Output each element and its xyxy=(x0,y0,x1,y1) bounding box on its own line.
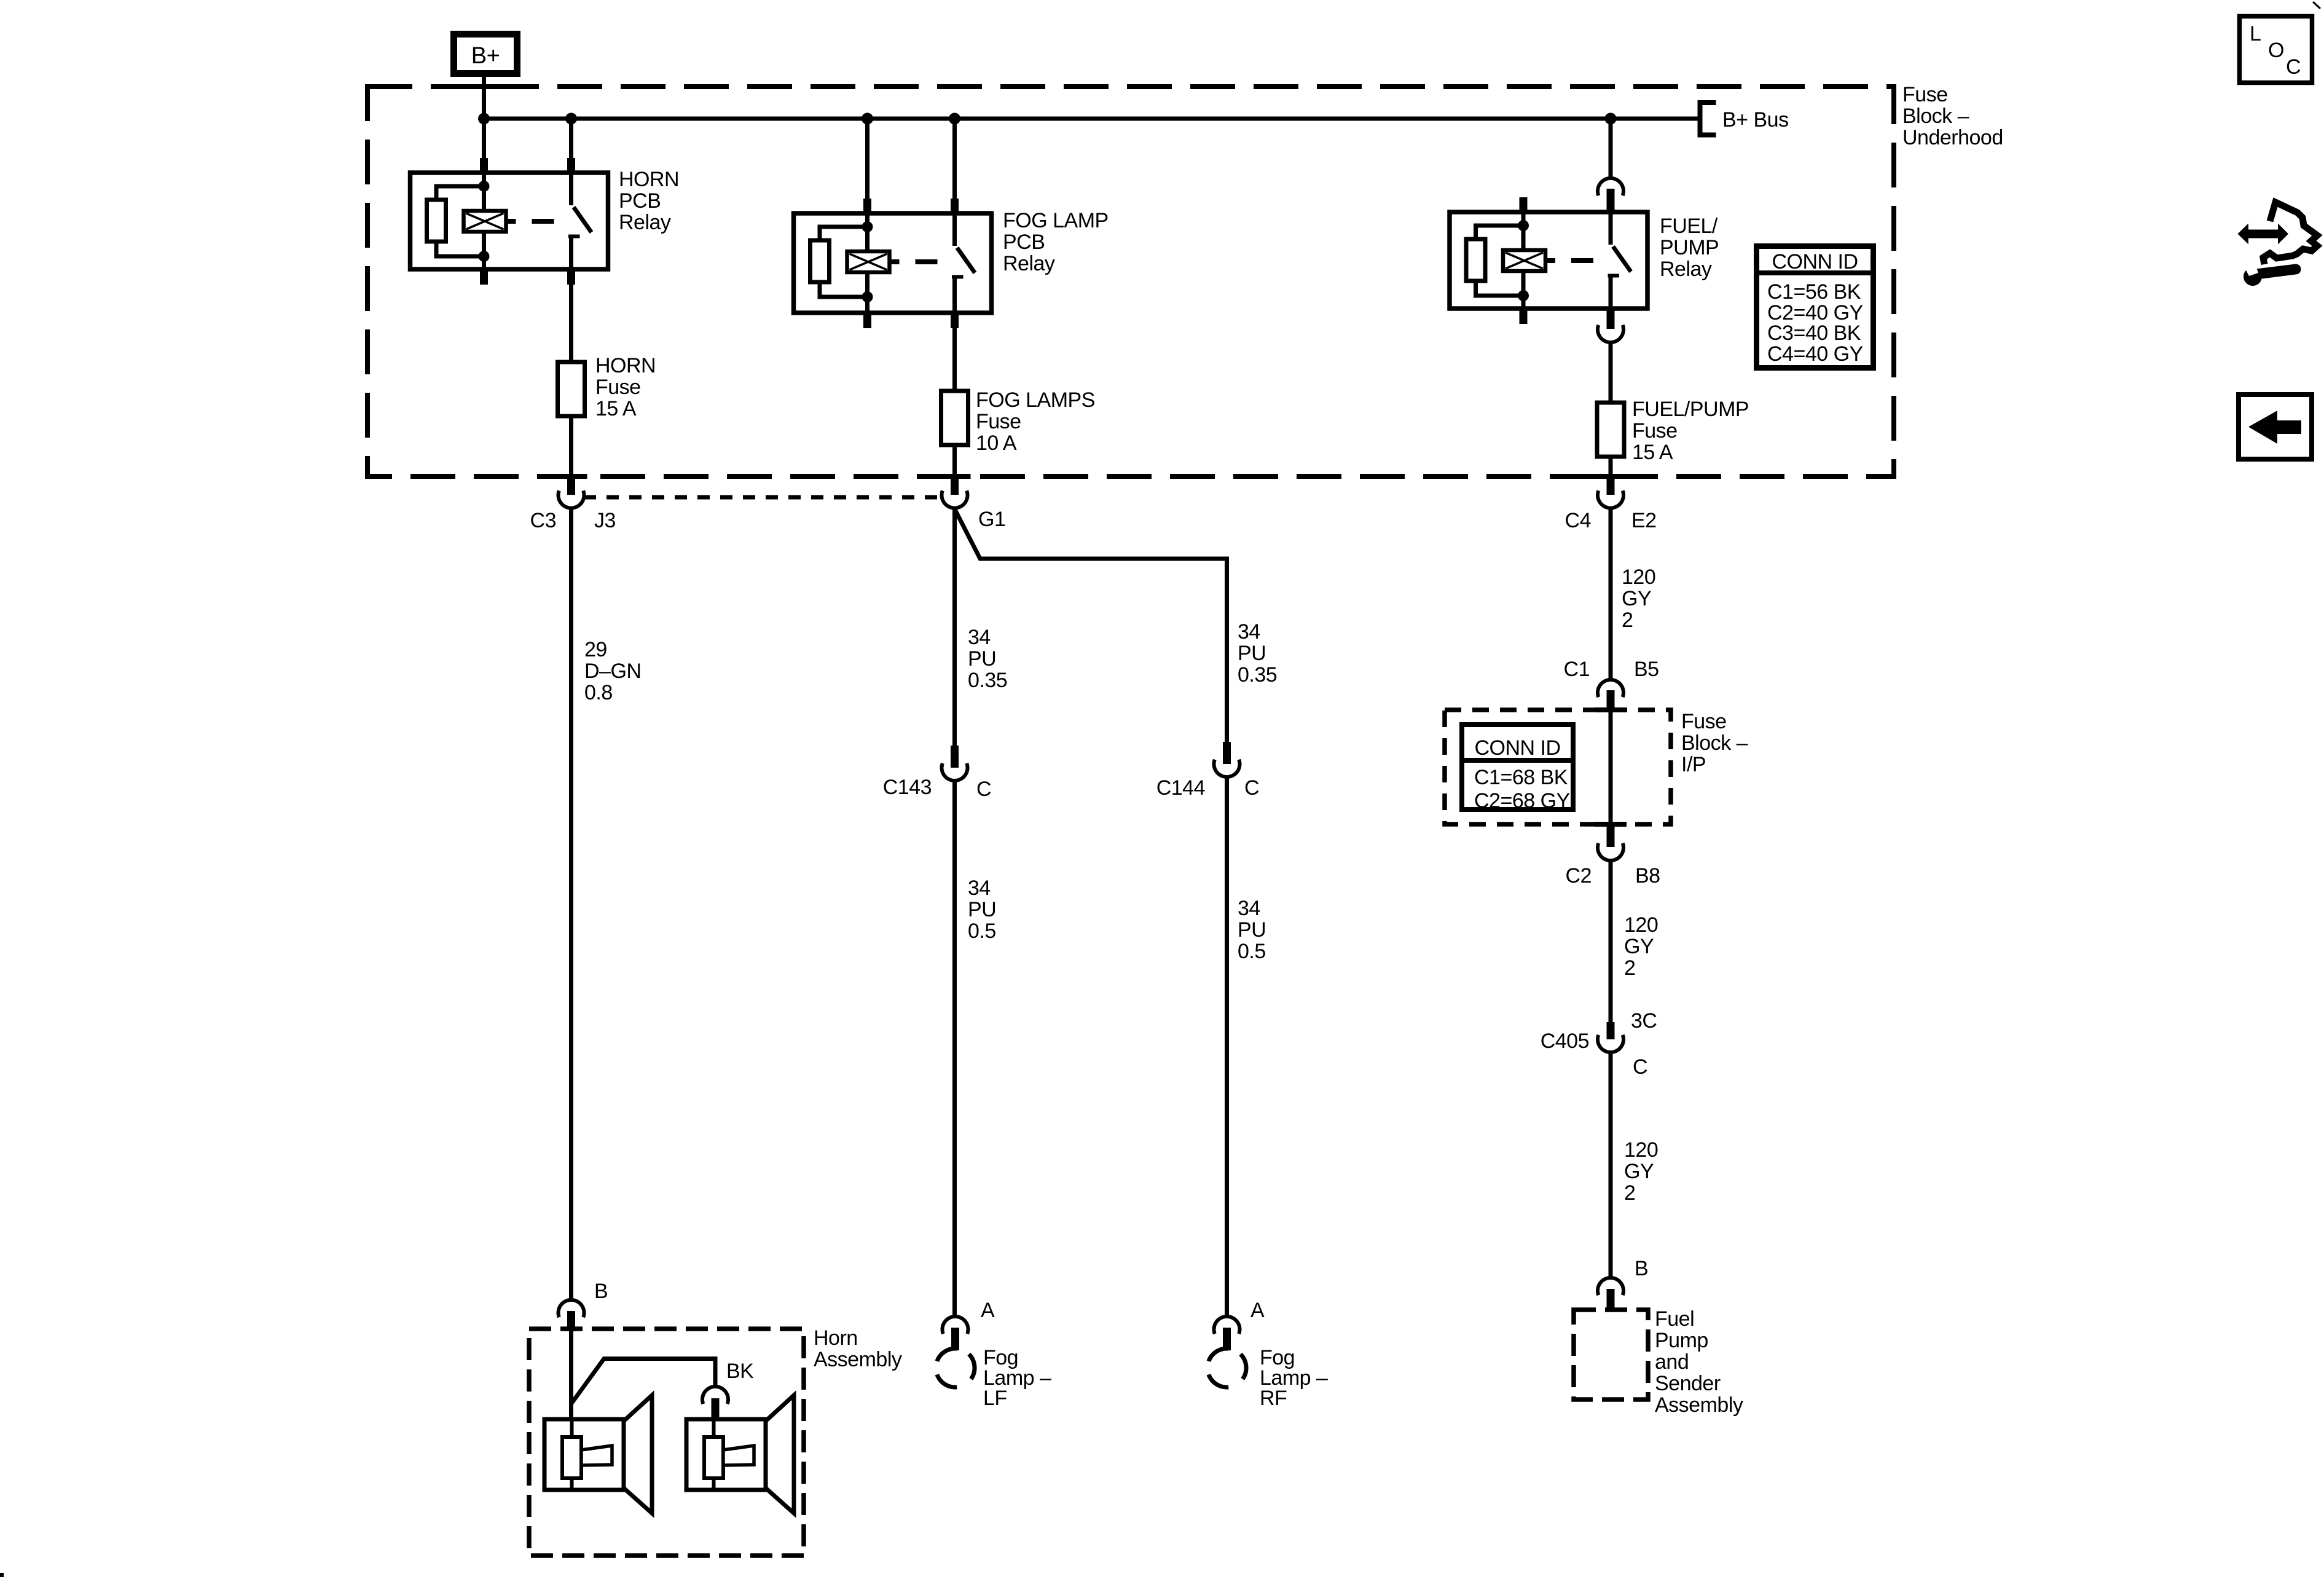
svg-text:C: C xyxy=(976,778,991,801)
wire bus to fog relay switch xyxy=(952,119,957,200)
svg-text:120: 120 xyxy=(1624,1138,1658,1162)
label HORN Fuse 15 A xyxy=(595,354,656,420)
svg-text:FOG LAMP: FOG LAMP xyxy=(1003,209,1109,232)
svg-text:PU: PU xyxy=(968,898,996,921)
page artifact marks xyxy=(0,1573,4,1577)
svg-text:Fuse: Fuse xyxy=(1902,83,1948,106)
wire fog fuse to connector G1 xyxy=(952,445,957,476)
svg-text:A: A xyxy=(981,1299,995,1322)
svg-text:Fuel: Fuel xyxy=(1655,1307,1694,1331)
net B+ Bus terminal xyxy=(1700,103,1789,135)
wire label 34 PU 0.5 LF xyxy=(968,876,996,943)
svg-text:E2: E2 xyxy=(1631,509,1657,532)
svg-text:PU: PU xyxy=(1238,642,1266,665)
wire branch to BK xyxy=(571,1359,716,1404)
wire horn relay to horn fuse xyxy=(569,283,573,363)
fuse FOG LAMPS Fuse 10 A xyxy=(941,391,968,445)
svg-text:34: 34 xyxy=(1238,897,1260,920)
svg-text:Assembly: Assembly xyxy=(1655,1393,1743,1417)
svg-text:Underhood: Underhood xyxy=(1902,126,2003,149)
wire fog relay to fog fuse xyxy=(952,326,957,392)
label Fuse Block - Underhood xyxy=(1902,83,2003,149)
connector B horn xyxy=(558,1300,584,1331)
Fuse Block - I/P boundary box xyxy=(1445,710,1671,824)
Fuse Block - Underhood boundary box xyxy=(367,87,1894,476)
svg-text:GY: GY xyxy=(1624,935,1654,958)
connector boundary J3 to G1 (dotted) xyxy=(584,495,942,500)
power symbol B+ xyxy=(454,34,517,74)
svg-text:Fuse: Fuse xyxy=(1681,710,1727,733)
connector C144 xyxy=(1214,742,1240,777)
connector fuel relay feed xyxy=(1598,178,1623,212)
svg-text:Relay: Relay xyxy=(619,211,671,234)
label Fuel Pump and Sender Assembly xyxy=(1655,1307,1743,1417)
connector BK xyxy=(702,1387,728,1419)
back arrow navigation symbol xyxy=(2239,395,2312,459)
svg-text:C1=56 BK: C1=56 BK xyxy=(1767,280,1861,304)
wire G1 to C143 (34 PU 0.35) xyxy=(952,508,957,747)
lamp Fog Lamp - RF xyxy=(1209,1349,1246,1387)
fuse FUEL/PUMP Fuse 15 A xyxy=(1597,403,1624,457)
svg-text:FUEL/: FUEL/ xyxy=(1660,215,1718,238)
svg-text:Assembly: Assembly xyxy=(814,1348,902,1371)
boundary dash bars at wire crossings xyxy=(468,84,500,89)
connector C405 xyxy=(1598,1022,1623,1052)
label Horn Assembly xyxy=(814,1326,902,1371)
node junction fuel feed xyxy=(1605,113,1617,125)
svg-text:C2: C2 xyxy=(1566,864,1592,888)
svg-text:15 A: 15 A xyxy=(595,397,637,420)
wire branch G1 to fog lamp RF xyxy=(956,511,1227,743)
svg-text:B+: B+ xyxy=(471,43,500,69)
connector A fog lamp LF xyxy=(943,1317,968,1350)
svg-text:BK: BK xyxy=(726,1360,754,1383)
wire label 34 PU 0.35 RF xyxy=(1238,620,1277,687)
svg-text:0.8: 0.8 xyxy=(584,681,613,704)
svg-text:C143: C143 xyxy=(883,776,932,799)
svg-text:10 A: 10 A xyxy=(976,431,1017,455)
label FUEL/PUMP Relay xyxy=(1660,215,1719,281)
node junction B+/horn coil xyxy=(478,113,490,125)
horn 1 xyxy=(544,1395,652,1513)
svg-text:Sender: Sender xyxy=(1655,1372,1721,1395)
svg-text:PU: PU xyxy=(1238,918,1266,942)
svg-text:I/P: I/P xyxy=(1681,753,1706,776)
svg-text:B8: B8 xyxy=(1635,864,1660,888)
connector fuel relay output xyxy=(1598,308,1623,342)
wire bus to horn relay coil xyxy=(482,119,486,159)
svg-text:C144: C144 xyxy=(1156,776,1205,800)
svg-text:PCB: PCB xyxy=(1003,230,1045,254)
fuse HORN Fuse 15 A xyxy=(558,362,585,416)
svg-text:C405: C405 xyxy=(1541,1030,1589,1053)
svg-text:PUMP: PUMP xyxy=(1660,236,1719,259)
connector C1 / B5 xyxy=(1598,680,1623,712)
wire B+ to bus xyxy=(482,77,486,119)
relay FUEL/PUMP Relay xyxy=(1450,197,1647,324)
svg-text:C3: C3 xyxy=(530,509,556,532)
svg-text:Block –: Block – xyxy=(1902,104,1969,128)
svg-text:and: and xyxy=(1655,1350,1689,1374)
svg-text:Block –: Block – xyxy=(1681,731,1748,755)
label Fog Lamp - RF xyxy=(1260,1346,1328,1410)
node junction fog switch xyxy=(949,113,960,125)
svg-text:L: L xyxy=(2250,22,2261,45)
wire C3 to horn assembly (29 D-GN 0.8) xyxy=(569,508,573,1299)
wire bus to fog relay coil xyxy=(865,119,870,200)
connector A fog lamp RF xyxy=(1214,1317,1240,1350)
svg-text:G1: G1 xyxy=(978,508,1005,531)
service info icon (hood with arrow and wrench) xyxy=(2238,202,2318,286)
node junction horn switch xyxy=(565,113,577,125)
svg-text:A: A xyxy=(1250,1299,1265,1322)
connector B fuel pump xyxy=(1598,1278,1623,1310)
Fuel Pump and Sender Assembly box xyxy=(1574,1310,1648,1400)
svg-text:C: C xyxy=(1633,1055,1647,1079)
svg-text:0.5: 0.5 xyxy=(1238,940,1266,963)
svg-text:0.5: 0.5 xyxy=(968,919,996,943)
wire label 34 PU 0.35 LF xyxy=(968,626,1007,692)
svg-text:C3=40 BK: C3=40 BK xyxy=(1767,321,1861,345)
svg-text:C1: C1 xyxy=(1564,658,1590,681)
label Fog Lamp - LF xyxy=(983,1346,1051,1410)
svg-text:C: C xyxy=(1244,776,1259,800)
label FOG LAMP PCB Relay xyxy=(1003,209,1109,275)
wire label 29 D-GN 0.8 xyxy=(584,638,641,704)
svg-text:C2=68 GY: C2=68 GY xyxy=(1474,789,1570,813)
svg-text:29: 29 xyxy=(584,638,607,661)
svg-text:2: 2 xyxy=(1624,956,1635,980)
relay HORN PCB Relay xyxy=(410,158,608,285)
wire through fuse block I/P xyxy=(1609,712,1613,825)
wire C2 to C405 (120 GY 2) xyxy=(1609,860,1613,1023)
wire label 120 GY 2 (a) xyxy=(1622,565,1655,632)
label FOG LAMPS Fuse 10 A xyxy=(976,388,1095,455)
connector G1 xyxy=(942,474,968,508)
svg-text:B5: B5 xyxy=(1634,658,1659,681)
svg-text:Relay: Relay xyxy=(1003,252,1055,275)
lamp Fog Lamp - LF xyxy=(937,1349,975,1387)
LOC page locator symbol xyxy=(2240,17,2312,83)
svg-text:CONN ID: CONN ID xyxy=(1772,250,1858,274)
svg-text:FOG LAMPS: FOG LAMPS xyxy=(976,388,1095,412)
svg-text:B+ Bus: B+ Bus xyxy=(1722,108,1789,132)
svg-text:HORN: HORN xyxy=(619,168,679,191)
connector C3 / J3 xyxy=(559,474,584,508)
svg-text:HORN: HORN xyxy=(595,354,656,377)
svg-text:Relay: Relay xyxy=(1660,258,1712,281)
horn 2 xyxy=(686,1395,794,1513)
wire horn fuse to connector C3 xyxy=(569,416,573,476)
svg-text:34: 34 xyxy=(968,876,991,900)
svg-text:O: O xyxy=(2268,39,2284,62)
wire C143 to fog lamp LF (34 PU 0.5) xyxy=(952,781,957,1315)
svg-text:FUEL/PUMP: FUEL/PUMP xyxy=(1632,398,1749,421)
svg-text:B: B xyxy=(1635,1257,1648,1280)
svg-text:34: 34 xyxy=(968,626,991,649)
relay FOG LAMP PCB Relay xyxy=(794,199,992,328)
svg-text:C1=68 BK: C1=68 BK xyxy=(1474,766,1568,789)
wire bus to fuel relay connector xyxy=(1609,119,1613,177)
CONN ID table underhood xyxy=(1756,246,1874,368)
svg-text:C4: C4 xyxy=(1565,509,1591,532)
svg-text:CONN ID: CONN ID xyxy=(1474,736,1560,760)
svg-text:Fuse: Fuse xyxy=(976,410,1021,433)
wire C405 to fuel pump (120 GY 2) xyxy=(1609,1053,1613,1277)
svg-text:15 A: 15 A xyxy=(1632,441,1673,464)
label FUEL/PUMP Fuse 15 A xyxy=(1632,398,1749,464)
svg-text:Fuse: Fuse xyxy=(595,376,641,399)
svg-text:34: 34 xyxy=(1238,620,1260,644)
wire label 120 GY 2 (c) xyxy=(1624,1138,1658,1205)
wire bus to horn relay switch xyxy=(569,119,573,159)
label Fuse Block - I/P xyxy=(1681,710,1748,776)
svg-text:C: C xyxy=(2286,55,2301,79)
svg-text:120: 120 xyxy=(1624,913,1658,937)
wire fuel relay to fuel fuse xyxy=(1609,343,1613,404)
svg-text:120: 120 xyxy=(1622,565,1655,589)
wire B to horn 1 xyxy=(569,1331,573,1420)
CONN ID table I/P xyxy=(1462,725,1573,813)
connector C4 / E2 xyxy=(1598,474,1623,508)
connector C143 xyxy=(942,746,968,781)
svg-text:B: B xyxy=(594,1280,608,1303)
svg-text:Horn: Horn xyxy=(814,1326,858,1350)
svg-text:Pump: Pump xyxy=(1655,1329,1708,1352)
svg-text:2: 2 xyxy=(1624,1181,1635,1205)
svg-text:J3: J3 xyxy=(594,509,616,532)
wire C4 to C1 (120 GY 2) xyxy=(1609,508,1613,679)
node junction fog coil xyxy=(862,113,873,125)
svg-text:3C: 3C xyxy=(1631,1009,1657,1033)
wire fuel fuse to connector C4 xyxy=(1609,457,1613,476)
svg-text:PU: PU xyxy=(968,647,996,671)
svg-text:GY: GY xyxy=(1624,1160,1654,1183)
svg-text:0.35: 0.35 xyxy=(1238,663,1277,687)
wire label 120 GY 2 (b) xyxy=(1624,913,1658,980)
svg-text:GY: GY xyxy=(1622,587,1651,610)
wire C144 to fog lamp RF (34 PU 0.5) xyxy=(1225,778,1229,1315)
label HORN PCB Relay xyxy=(619,168,679,234)
svg-text:0.35: 0.35 xyxy=(968,669,1007,692)
svg-text:LF: LF xyxy=(983,1387,1007,1410)
svg-text:2: 2 xyxy=(1622,608,1633,632)
svg-text:PCB: PCB xyxy=(619,189,661,213)
svg-text:C4=40 GY: C4=40 GY xyxy=(1767,342,1863,366)
wire B+ bus xyxy=(482,117,1700,121)
svg-text:D–GN: D–GN xyxy=(584,660,641,683)
connector C2 / B8 xyxy=(1598,824,1623,860)
svg-text:RF: RF xyxy=(1260,1387,1287,1410)
wire label 34 PU 0.5 RF xyxy=(1238,897,1266,963)
Horn Assembly boundary box xyxy=(529,1329,804,1556)
svg-text:Fuse: Fuse xyxy=(1632,419,1678,443)
